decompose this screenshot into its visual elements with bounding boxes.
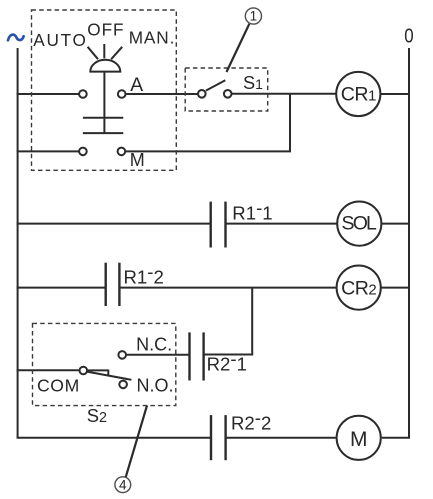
svg-text:CR1: CR1 [341,84,376,106]
svg-text:A: A [130,75,143,96]
svg-text:CR2: CR2 [341,278,376,300]
svg-text:M: M [350,428,368,451]
svg-text:0: 0 [404,24,413,47]
svg-text:OFF: OFF [87,20,124,40]
svg-text:N.O.: N.O. [137,376,174,396]
svg-text:SOL: SOL [341,213,377,235]
svg-text:S1: S1 [243,73,263,93]
svg-text:MAN.: MAN. [129,28,176,48]
svg-text:AUTO: AUTO [33,30,87,50]
svg-text:4: 4 [119,478,127,493]
svg-text:M: M [130,150,145,170]
svg-text:N.C.: N.C. [136,335,172,355]
svg-text:COM: COM [37,375,80,395]
svg-text:1: 1 [250,9,258,24]
